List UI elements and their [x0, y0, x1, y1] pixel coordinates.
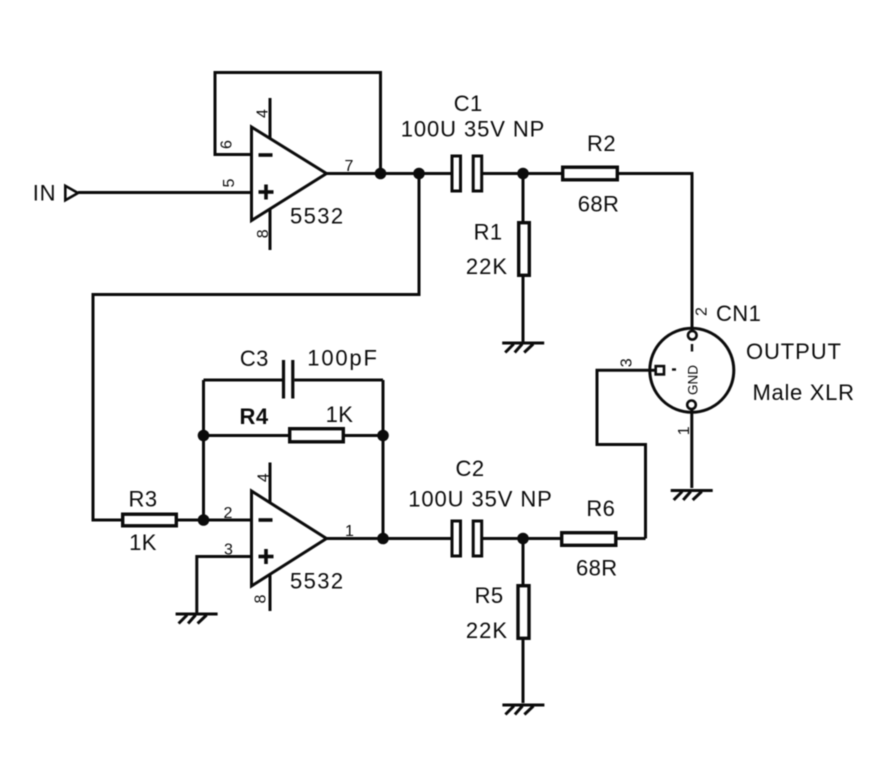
- svg-text:7: 7: [345, 158, 354, 175]
- svg-text:Male XLR: Male XLR: [753, 380, 855, 405]
- svg-text:100pF: 100pF: [307, 346, 378, 371]
- svg-text:5532: 5532: [290, 204, 345, 229]
- svg-text:IN: IN: [33, 181, 57, 206]
- svg-text:4: 4: [254, 109, 271, 118]
- svg-text:C1: C1: [454, 91, 483, 116]
- svg-text:4: 4: [256, 473, 273, 482]
- svg-text:5: 5: [221, 178, 238, 187]
- svg-text:OUTPUT: OUTPUT: [746, 339, 842, 364]
- svg-text:R3: R3: [129, 487, 158, 512]
- svg-text:C2: C2: [456, 456, 485, 481]
- svg-text:5532: 5532: [290, 569, 345, 594]
- svg-text:CN1: CN1: [716, 301, 761, 326]
- svg-text:2: 2: [693, 307, 710, 316]
- svg-text:R1: R1: [474, 220, 503, 245]
- svg-text:8: 8: [253, 594, 270, 603]
- svg-text:R5: R5: [475, 583, 504, 608]
- svg-text:68R: 68R: [578, 192, 620, 217]
- svg-text:6: 6: [218, 140, 235, 149]
- svg-text:1K: 1K: [326, 402, 354, 427]
- svg-text:1: 1: [676, 426, 693, 435]
- svg-text:100U 35V NP: 100U 35V NP: [401, 117, 545, 142]
- svg-text:1: 1: [345, 523, 354, 540]
- svg-text:1K: 1K: [129, 530, 157, 555]
- svg-text:GND: GND: [685, 365, 700, 395]
- svg-text:R6: R6: [586, 496, 615, 521]
- svg-text:22K: 22K: [466, 254, 508, 279]
- svg-text:2: 2: [224, 505, 233, 522]
- svg-text:68R: 68R: [576, 556, 618, 581]
- svg-text:C3: C3: [240, 346, 269, 371]
- svg-text:R2: R2: [587, 131, 616, 156]
- svg-text:8: 8: [255, 229, 272, 238]
- svg-text:3: 3: [224, 542, 233, 559]
- svg-text:100U 35V NP: 100U 35V NP: [408, 487, 552, 512]
- svg-text:R4: R4: [240, 404, 269, 429]
- svg-text:22K: 22K: [466, 618, 508, 643]
- svg-text:3: 3: [618, 358, 635, 367]
